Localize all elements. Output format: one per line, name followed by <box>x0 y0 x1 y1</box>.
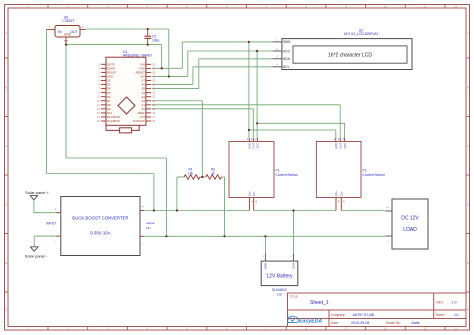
current sensor P1 <box>229 138 299 211</box>
wire 13V rail to U9 IN <box>46 29 153 211</box>
module buck boost converter <box>46 197 154 256</box>
svg-text:SDA: SDA <box>283 57 291 61</box>
node 13V rail to battery <box>292 209 294 211</box>
svg-text:12V Battery: 12V Battery <box>266 273 293 279</box>
node minus rail R2 <box>223 235 225 237</box>
wire +5V drop to Arduino +5V pin <box>168 29 170 76</box>
node minus rail GND join <box>165 235 167 237</box>
svg-text:ARDUINO_NANO: ARDUINO_NANO <box>123 54 152 58</box>
svg-text:+: + <box>387 206 389 210</box>
wire buck input - to solar panel - <box>34 236 56 247</box>
node GND at C2 bottom <box>147 44 149 46</box>
battery U3 12V <box>261 254 298 297</box>
svg-text:Solar panel +: Solar panel + <box>25 190 49 195</box>
svg-text:AATIK´S LAB: AATIK´S LAB <box>353 313 375 317</box>
wire R1 left lead to 13V rail <box>177 177 184 211</box>
wire Arduino A2 to divider tap <box>152 101 202 177</box>
svg-text:12v-: 12v- <box>340 191 344 197</box>
wire VCC line to LCD VCC pin <box>188 50 273 52</box>
svg-text:Current Sensor: Current Sensor <box>363 173 386 177</box>
svg-text:+: + <box>55 207 57 211</box>
svg-text:Date:: Date: <box>331 321 339 325</box>
svg-text:IN: IN <box>58 30 62 34</box>
svg-text:output: output <box>146 221 155 225</box>
svg-text:0-30V 10A: 0-30V 10A <box>90 231 110 236</box>
node GND branch to sensors <box>248 41 250 43</box>
svg-text:REV:: REV: <box>437 301 444 305</box>
svg-text:E: E <box>5 261 7 265</box>
wire R2 right lead to minus rail <box>222 177 225 236</box>
svg-text:12v+: 12v+ <box>334 190 338 197</box>
wire VCC descent to sensor P1 VCC <box>256 51 258 138</box>
svg-text:SCL: SCL <box>283 65 290 69</box>
svg-text:DC 12V: DC 12V <box>401 216 419 222</box>
svg-text:F: F <box>5 307 7 311</box>
wire Arduino GND pin row <box>152 67 182 69</box>
svg-text:GND: GND <box>334 143 338 149</box>
wire GND line to LCD GND pin <box>182 41 272 43</box>
svg-text:A: A <box>5 31 7 35</box>
svg-text:D13/SCK: D13/SCK <box>133 119 145 123</box>
current sensor P2 <box>316 138 385 211</box>
wire battery GND to minus rail <box>264 236 266 253</box>
microcontroller U1 ARDUINO_NANO <box>97 50 156 133</box>
svg-text:D12/MISO: D12/MISO <box>107 119 121 123</box>
svg-text:Solar panel -: Solar panel - <box>25 253 48 258</box>
svg-text:B: B <box>467 85 469 89</box>
wire +5V rail from U9 OUT <box>86 28 169 30</box>
svg-text:11: 11 <box>424 327 427 331</box>
svg-text:10: 10 <box>384 327 388 331</box>
port Solar panel + <box>25 190 49 200</box>
wire 13V rail sensor P1 to P2 <box>254 210 336 212</box>
wire 13V rail buck to sensor P1 <box>144 210 249 212</box>
svg-text:GND: GND <box>64 32 72 36</box>
svg-text:B: B <box>5 85 7 89</box>
svg-text:10k: 10k <box>188 171 194 175</box>
svg-text:10: 10 <box>384 5 388 9</box>
wire Arduino A0 to sensor P1 OUT <box>152 109 253 138</box>
svg-text:GND: GND <box>283 40 291 44</box>
svg-text:A: A <box>467 31 469 35</box>
svg-text:U3: U3 <box>277 292 281 296</box>
svg-text:2k: 2k <box>211 171 215 175</box>
svg-text:GND: GND <box>264 263 268 269</box>
capacitor C2 100u <box>144 29 159 45</box>
node Arduino GND pin <box>161 67 163 69</box>
svg-text:Drawn By:: Drawn By: <box>386 321 401 325</box>
svg-text:INPUT: INPUT <box>46 222 56 226</box>
node +5V at C2 top <box>147 28 149 30</box>
svg-text:12: 12 <box>454 327 458 331</box>
svg-text:Company:: Company: <box>331 313 346 317</box>
node 13V rail to U9 IN <box>153 209 155 211</box>
svg-text:12: 12 <box>454 5 458 9</box>
wire GND riser <box>181 42 183 68</box>
wire VCC branch to sensor P2 <box>257 123 345 138</box>
wire SCL from Arduino to LCD <box>152 67 272 85</box>
node 13V rail to R1 <box>176 209 178 211</box>
resistor R2 2k <box>206 167 222 179</box>
svg-text:11: 11 <box>424 5 427 9</box>
resistor R1 10k <box>184 167 200 179</box>
node GND sensor split <box>248 129 250 131</box>
wire minus rail buck to load - <box>144 235 386 237</box>
svg-text:16*2 IIC_LCD-DISPLAY: 16*2 IIC_LCD-DISPLAY <box>343 32 379 36</box>
wire divider middle segment <box>200 176 206 178</box>
svg-text:VCC: VCC <box>256 143 260 149</box>
wire GND branch to sensor P2 <box>249 130 336 138</box>
svg-text:Current Sensor: Current Sensor <box>276 173 299 177</box>
svg-text:+: + <box>142 205 144 209</box>
wire 13V rail sensor P2 to load + <box>341 210 385 212</box>
svg-text:1/1: 1/1 <box>454 313 459 317</box>
svg-text:L7805T: L7805T <box>62 19 75 23</box>
wire GND drop to Arduino GND pin <box>161 45 163 69</box>
svg-text:F: F <box>467 307 469 311</box>
node VCC sensor split <box>256 122 258 124</box>
svg-text:OUT: OUT <box>70 30 77 34</box>
svg-text:1.0: 1.0 <box>452 301 457 305</box>
svg-text:Sheet:: Sheet: <box>436 313 445 317</box>
node VCC branch to sensors <box>256 50 258 52</box>
svg-text:12v-: 12v- <box>252 191 256 197</box>
wire SDA from Arduino to LCD <box>152 59 272 89</box>
wire battery +12V to 13V rail <box>293 211 295 254</box>
load DC 12V <box>386 199 428 249</box>
svg-text:16*2 character LCD: 16*2 character LCD <box>328 53 372 59</box>
node Arduino +5V pin <box>168 75 170 77</box>
svg-text:+12V: +12V <box>292 263 296 270</box>
svg-text:Sheet_1: Sheet_1 <box>310 300 329 306</box>
node divider tap <box>201 176 203 178</box>
wire Arduino +5V pin row <box>152 75 188 77</box>
svg-text:TITLE:: TITLE: <box>290 294 299 298</box>
voltage regulator U9 L7805T <box>47 15 86 44</box>
port Solar panel - <box>25 247 48 258</box>
svg-text:13v: 13v <box>146 226 151 230</box>
svg-text:VCC: VCC <box>283 49 291 53</box>
node minus rail battery GND <box>264 235 266 237</box>
svg-text:E: E <box>467 261 469 265</box>
svg-text:LOAD: LOAD <box>403 227 417 233</box>
title block <box>288 293 467 327</box>
wire GND descent to sensor P1 GND <box>248 42 250 138</box>
wire solar panel + to buck input <box>34 200 56 213</box>
svg-text:BUCK BOOST CONVERTER: BUCK BOOST CONVERTER <box>72 216 128 221</box>
wire +5V riser <box>187 51 189 76</box>
node GND at U9 <box>65 44 67 46</box>
svg-text:OUT: OUT <box>338 142 342 148</box>
wire GND down to minus rail <box>66 45 166 237</box>
svg-text:Aatik: Aatik <box>412 321 420 325</box>
svg-text:EasyEDA: EasyEDA <box>299 319 322 325</box>
svg-text:2019-09-08: 2019-09-08 <box>351 321 369 325</box>
svg-text:100u: 100u <box>152 39 160 43</box>
wire Arduino A1 to sensor P2 OUT <box>152 105 340 138</box>
svg-text:VCC: VCC <box>343 143 347 149</box>
wire GND rail from U9 junction <box>66 44 162 46</box>
display U2 16*2 IIC_LCD-DISPLAY <box>273 28 412 69</box>
logo EasyEDA <box>288 316 323 325</box>
